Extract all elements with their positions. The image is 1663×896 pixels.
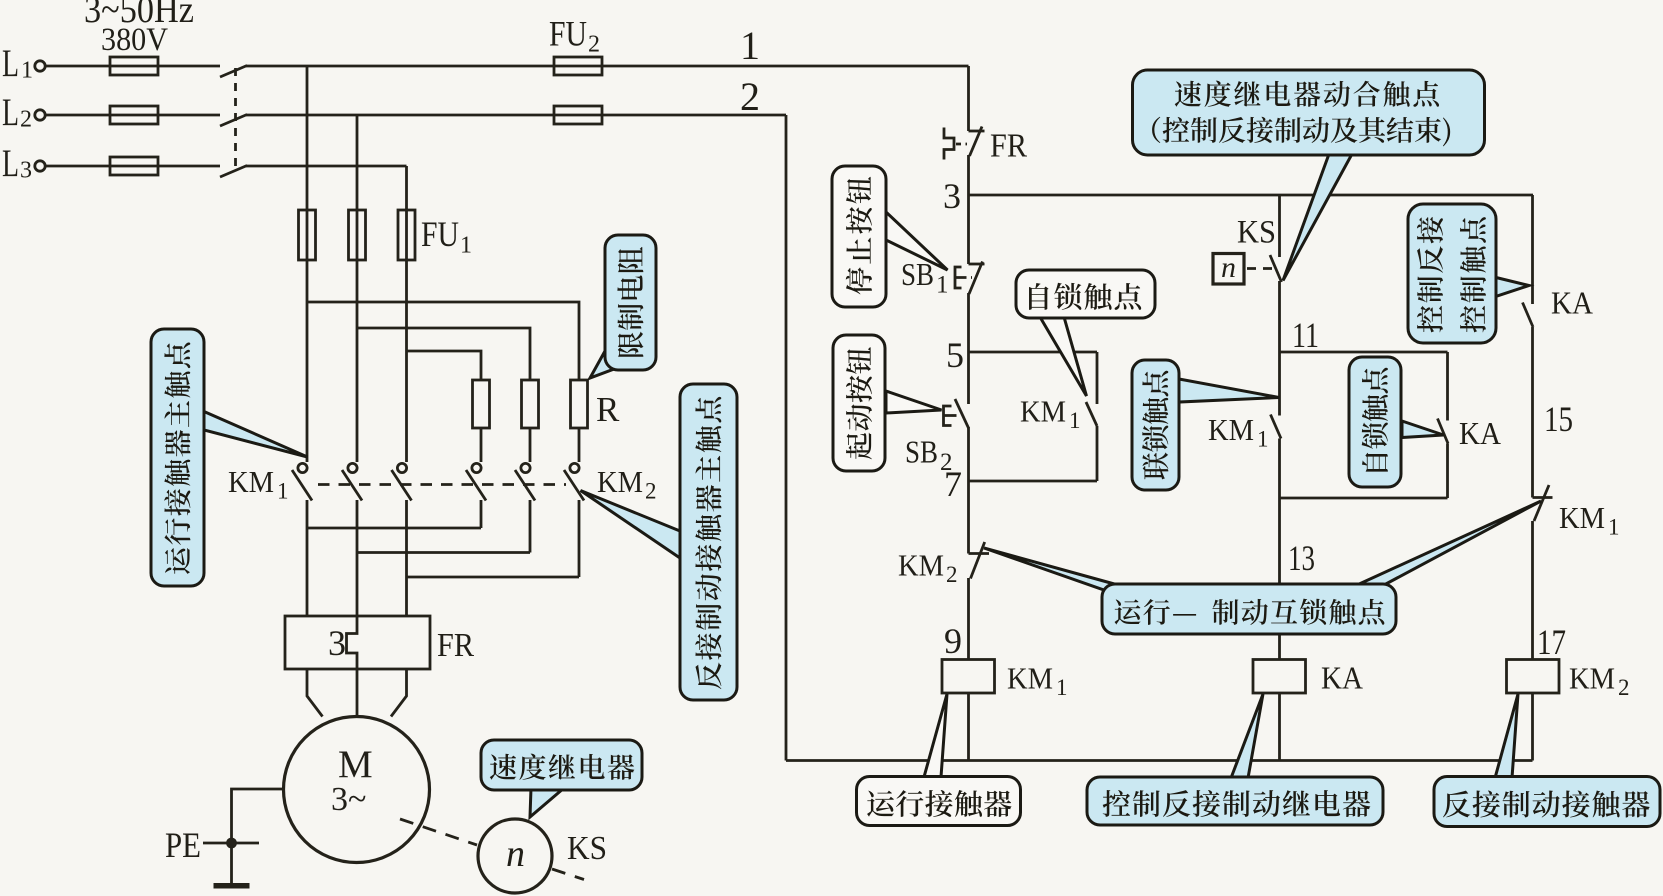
svg-text:L: L bbox=[2, 142, 19, 185]
callout start-button box bbox=[833, 335, 942, 471]
wire merge phase A bbox=[307, 527, 481, 530]
callout text zisuo1 bbox=[1029, 283, 1141, 310]
callout speed-relay box bbox=[481, 740, 642, 817]
n box bbox=[1213, 254, 1244, 285]
wire FR out 3 bbox=[391, 669, 407, 717]
wire L2 bbox=[46, 114, 221, 117]
svg-text:1: 1 bbox=[1056, 675, 1068, 700]
svg-text:KM: KM bbox=[597, 464, 643, 499]
KM1 self-lock contact bbox=[1086, 352, 1097, 481]
svg-text:KM: KM bbox=[1208, 412, 1254, 447]
wire resistor 2 down bbox=[529, 428, 532, 462]
svg-text:SB: SB bbox=[905, 434, 938, 470]
coil KA bbox=[1253, 660, 1306, 694]
callout text line1 bbox=[1175, 81, 1439, 107]
callout text zisuo2 bbox=[1362, 368, 1388, 472]
wire phase B down bbox=[356, 115, 359, 462]
wire PE to motor bbox=[232, 789, 284, 884]
wire line2 corner down bbox=[785, 115, 788, 761]
callout text kzjdq bbox=[1103, 790, 1371, 817]
callout text sudu bbox=[490, 754, 635, 780]
svg-text:FU: FU bbox=[549, 14, 587, 54]
wire FR out 1 bbox=[307, 669, 323, 717]
svg-text:FR: FR bbox=[437, 627, 474, 664]
callout brake-contactor box bbox=[1434, 694, 1660, 827]
callout text yxjchq bbox=[867, 790, 1011, 817]
svg-text:KS: KS bbox=[567, 830, 607, 867]
wire FR out 2 bbox=[356, 669, 359, 717]
KM1 NC contact right bbox=[1533, 485, 1553, 521]
wire line1 corner down bbox=[967, 66, 970, 131]
svg-text:11: 11 bbox=[1292, 315, 1319, 355]
callout text kzfj bbox=[1417, 217, 1443, 332]
KM1 interlock contact bbox=[1271, 415, 1282, 439]
shaft dashed link motor-KS bbox=[400, 819, 477, 845]
svg-text:KM: KM bbox=[1007, 661, 1053, 696]
wire line 2 bbox=[246, 114, 786, 117]
svg-text:KM: KM bbox=[898, 548, 944, 583]
fuse FU2b on line 2 bbox=[554, 106, 602, 124]
wire KA to KM1 NC bbox=[1531, 327, 1534, 498]
contactor KM1 main contact pole 1 bbox=[292, 463, 312, 500]
svg-text:PE: PE bbox=[165, 825, 201, 865]
wire KM1 coil down bbox=[967, 693, 970, 761]
svg-text:1: 1 bbox=[1257, 427, 1269, 452]
callout text line2 bbox=[1152, 117, 1450, 147]
svg-text:L: L bbox=[2, 91, 19, 134]
switch QS linkage dashed bbox=[234, 68, 237, 170]
coil KM1 bbox=[942, 660, 995, 694]
svg-text:7: 7 bbox=[944, 464, 962, 504]
contactor KM1 main contact pole 2 bbox=[342, 463, 362, 500]
fuse FU1 pole 1 bbox=[299, 210, 316, 260]
FR heater element bbox=[347, 616, 358, 669]
fuse L2 bbox=[110, 106, 158, 124]
contactor KM2 main contact pole 1 bbox=[466, 463, 486, 500]
resistor R pole 1 bbox=[473, 380, 490, 428]
wire PE horizontal bbox=[203, 842, 259, 845]
wire branch B to resistor 2 bbox=[357, 328, 530, 380]
resistor R pole 2 bbox=[522, 380, 539, 428]
fuse FU1 pole 2 bbox=[349, 210, 366, 260]
svg-text:2: 2 bbox=[20, 107, 32, 133]
wire L3 bbox=[46, 165, 221, 168]
svg-text:13: 13 bbox=[1288, 538, 1315, 578]
callout self-lock-1 box bbox=[1016, 270, 1155, 396]
callout interlock-contact box bbox=[1132, 360, 1279, 490]
contactor KM2 main contact pole 2 bbox=[515, 463, 535, 500]
motor M circle bbox=[284, 717, 430, 863]
wire resistor 1 down bbox=[480, 428, 483, 462]
wire L1 bbox=[46, 65, 221, 68]
callout text kzcd bbox=[1460, 217, 1486, 332]
svg-text:1: 1 bbox=[740, 23, 760, 68]
fuse FU1 pole 3 bbox=[398, 210, 415, 260]
svg-text:KM: KM bbox=[1020, 394, 1066, 429]
svg-text:KM: KM bbox=[1559, 500, 1605, 535]
wire merge phase C bbox=[407, 576, 580, 579]
KM1-KM2 linkage dashed bbox=[318, 483, 566, 486]
svg-text:2: 2 bbox=[645, 479, 657, 504]
callout text yxzhu bbox=[164, 342, 190, 573]
wire SB2 to KM2 NC bbox=[967, 427, 970, 554]
contactor KM1 main contact pole 3 bbox=[392, 463, 412, 500]
wire line 1 bbox=[246, 65, 969, 68]
svg-text:1: 1 bbox=[21, 58, 33, 84]
svg-text:2: 2 bbox=[946, 562, 958, 587]
wire KM1 pole1 down bbox=[306, 500, 309, 616]
svg-text:KA: KA bbox=[1459, 415, 1501, 451]
wire KM1 pole2 down bbox=[356, 500, 359, 616]
svg-text:2: 2 bbox=[740, 74, 760, 119]
callout limit-resistor box bbox=[590, 235, 656, 378]
callout KA-control-contact box bbox=[1408, 204, 1529, 343]
wire branch C to resistor 1 bbox=[407, 351, 482, 380]
svg-text:n: n bbox=[1221, 251, 1236, 284]
wire KS to node 11 bbox=[1278, 281, 1281, 416]
wire branch B top bbox=[1278, 195, 1281, 257]
wire branch C top bbox=[1531, 195, 1534, 304]
fuse FU2a on line 1 bbox=[554, 57, 602, 75]
svg-text:5: 5 bbox=[946, 335, 964, 375]
svg-text:FU: FU bbox=[421, 214, 459, 254]
wire KM1 pole3 down bbox=[405, 500, 408, 616]
junction dot PE bbox=[226, 838, 237, 849]
svg-text:3: 3 bbox=[20, 158, 32, 184]
contactor KM2 main contact pole 3 bbox=[564, 463, 584, 500]
svg-text:KA: KA bbox=[1551, 285, 1593, 321]
callout text xianzhi bbox=[617, 247, 643, 357]
svg-text:1: 1 bbox=[1069, 408, 1081, 433]
svg-text:9: 9 bbox=[944, 621, 962, 661]
callout KM1-main-contact box bbox=[151, 329, 308, 586]
callout text hudong bbox=[1115, 599, 1385, 625]
wire L3 out bbox=[246, 165, 407, 168]
svg-text:KA: KA bbox=[1321, 660, 1363, 696]
svg-text:3~: 3~ bbox=[331, 781, 366, 818]
svg-text:KM: KM bbox=[1569, 661, 1615, 696]
speed relay KS circle bbox=[478, 819, 552, 893]
svg-text:1: 1 bbox=[936, 272, 949, 299]
svg-text:1: 1 bbox=[277, 479, 289, 504]
svg-text:n: n bbox=[506, 833, 525, 875]
svg-text:M: M bbox=[338, 743, 373, 786]
wire KM2 pole2 down bbox=[529, 500, 532, 553]
callout KM2-main-contact box bbox=[581, 384, 738, 700]
wire to KM2 coil bbox=[1531, 521, 1534, 660]
KM2 NC interlock contact bbox=[969, 542, 990, 579]
start button SB2 bbox=[944, 399, 969, 428]
callout self-lock-2 box bbox=[1349, 357, 1444, 487]
callout text liansuo bbox=[1142, 371, 1168, 480]
svg-text:17: 17 bbox=[1537, 622, 1566, 662]
wire phase A down bbox=[306, 66, 309, 462]
wire to node 3 bbox=[967, 155, 970, 264]
svg-text:R: R bbox=[596, 390, 620, 429]
callout run-brake-interlock box bbox=[984, 501, 1541, 634]
wire resistor 3 down bbox=[578, 428, 581, 462]
wire to KA coil bbox=[1278, 439, 1281, 660]
svg-text:1: 1 bbox=[1608, 515, 1620, 540]
n box dashes bbox=[1247, 267, 1272, 270]
callout speed-contact box bbox=[1133, 70, 1485, 281]
resistor R pole 3 bbox=[571, 380, 588, 428]
switch QS pole 3 bbox=[220, 166, 247, 178]
node 5 rail bbox=[969, 351, 1098, 354]
svg-text:KS: KS bbox=[1237, 215, 1276, 251]
callout text tingzhi bbox=[846, 177, 872, 295]
fuse L1 bbox=[110, 57, 158, 75]
svg-text:FR: FR bbox=[990, 128, 1027, 165]
ground symbol bbox=[214, 883, 250, 889]
KA control contact bbox=[1523, 303, 1534, 328]
wire KM2 pole3 down bbox=[578, 500, 581, 577]
wire KA coil down bbox=[1278, 693, 1281, 761]
wire phase C down bbox=[405, 166, 408, 462]
svg-text:1: 1 bbox=[460, 233, 472, 259]
bottom rail bbox=[786, 759, 1533, 762]
wire merge phase B bbox=[357, 551, 530, 554]
stop button SB1 bbox=[955, 262, 985, 295]
switch QS pole 1 bbox=[220, 66, 247, 78]
wire SB1 to node 5 bbox=[967, 293, 970, 404]
svg-text:2: 2 bbox=[588, 32, 600, 58]
svg-text:3: 3 bbox=[328, 623, 346, 663]
thermal relay FR box bbox=[285, 616, 430, 669]
callout brake-relay box bbox=[1087, 694, 1383, 825]
FR NC contact in control bbox=[944, 127, 985, 160]
fuse L3 bbox=[110, 157, 158, 175]
wire KM2 coil down bbox=[1531, 693, 1534, 761]
node 3 rail bbox=[969, 194, 1534, 197]
svg-text:L: L bbox=[2, 42, 19, 85]
callout stop-button box bbox=[832, 166, 948, 307]
callout run-contactor box bbox=[857, 694, 1021, 826]
svg-text:380V: 380V bbox=[101, 22, 168, 58]
node 11 rail bbox=[1280, 351, 1448, 354]
svg-text:15: 15 bbox=[1544, 399, 1573, 439]
coil KM2 bbox=[1507, 660, 1560, 694]
KS speed contact bbox=[1270, 255, 1282, 282]
callout text fjjchq bbox=[1443, 790, 1650, 817]
KA self-lock branch bbox=[1280, 352, 1449, 498]
wire KM2 pole1 down bbox=[480, 500, 483, 528]
svg-text:KM: KM bbox=[228, 464, 274, 499]
node 7 rail bbox=[969, 480, 1098, 483]
svg-text:2: 2 bbox=[1618, 675, 1630, 700]
svg-text:3: 3 bbox=[943, 176, 961, 216]
wire branch A to resistor 3 bbox=[307, 302, 579, 380]
wire to KM1 coil bbox=[967, 578, 970, 660]
switch QS pole 2 bbox=[220, 115, 247, 127]
callout text qidong bbox=[846, 347, 872, 459]
callout text fjzhu bbox=[695, 397, 721, 689]
